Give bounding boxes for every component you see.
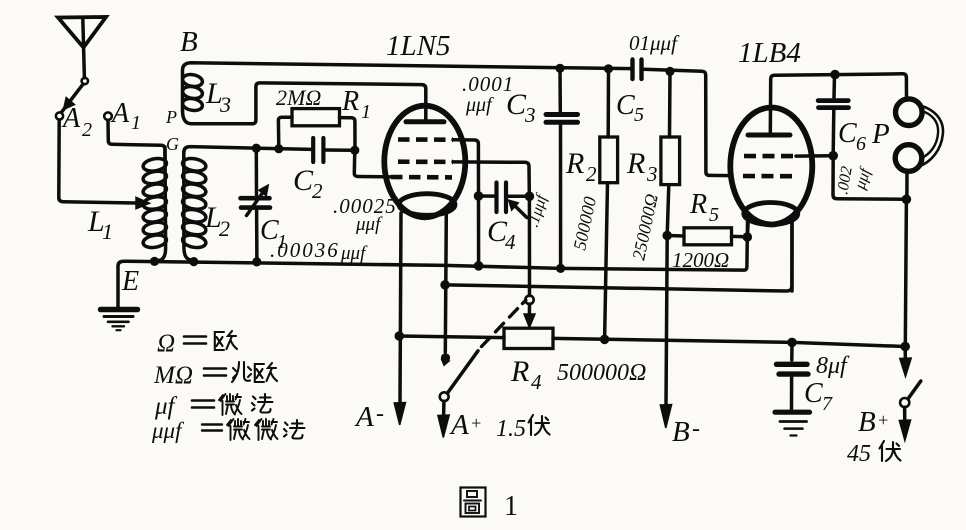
node R3-R5 [662, 231, 672, 241]
B- lead [666, 236, 667, 405]
B+ lead down [905, 199, 906, 346]
1LB4 filament dome [744, 203, 798, 225]
node C1-grid bus [252, 144, 261, 153]
svg-text:C: C [804, 378, 823, 409]
svg-text:Ω: Ω [157, 330, 175, 357]
1LB4 filament left leg [746, 220, 750, 237]
svg-text:1LB4: 1LB4 [738, 37, 801, 69]
node C4 left [474, 191, 484, 201]
B- arrowhead [660, 405, 671, 429]
ground bus wire E [118, 222, 748, 308]
1LN5 plate bar [406, 119, 444, 124]
svg-text:7: 7 [822, 393, 833, 415]
antenna switch upper contact [82, 78, 88, 84]
svg-text:45: 45 [847, 441, 871, 467]
node C6 bottom / plate row [828, 151, 838, 161]
svg-text:P: P [165, 107, 177, 127]
svg-text:4: 4 [531, 370, 542, 394]
capacitor C2 [311, 138, 315, 162]
svg-text:3: 3 [219, 92, 231, 117]
1LN5 filament dome [399, 194, 455, 216]
svg-text:-: - [376, 401, 384, 427]
svg-text:2: 2 [586, 162, 597, 186]
svg-text:8μf: 8μf [816, 353, 850, 379]
capacitor C7 8uf [790, 342, 794, 360]
L1 tap arrowhead [136, 197, 150, 208]
resistor R1 leads [278, 117, 292, 148]
terminal A2 [56, 112, 63, 119]
power switch arm (ganged with R4) [440, 392, 449, 401]
coil L3 [183, 63, 633, 111]
svg-text:5: 5 [709, 204, 719, 226]
svg-text:C: C [616, 90, 635, 121]
C4 trimmer arrow [514, 205, 527, 218]
node R1/C2 right [350, 146, 359, 155]
B+ rail wire3 [399, 336, 905, 347]
node C1-ground bus [252, 257, 261, 266]
svg-text:1: 1 [131, 112, 141, 134]
svg-text:1200Ω: 1200Ω [672, 248, 729, 272]
capacitor C1 (variable) [255, 150, 259, 196]
ground below C7 [775, 410, 810, 415]
node R2 bottom [600, 335, 610, 345]
svg-text:-: - [692, 416, 700, 442]
svg-text:A: A [110, 98, 130, 129]
node C3 bottom [556, 264, 565, 273]
svg-text:01μμf: 01μμf [629, 31, 680, 55]
svg-text:R: R [565, 147, 584, 180]
svg-text:500000: 500000 [569, 195, 600, 252]
wire L3 to 1LN5 plate cap [253, 83, 426, 124]
node R2 top [604, 64, 613, 73]
svg-text:.00036: .00036 [270, 238, 340, 262]
capacitor C6 [832, 75, 836, 98]
1LB4 grid row mid [744, 154, 796, 159]
svg-text:+: + [877, 410, 889, 430]
figure caption [461, 488, 486, 517]
coil L1 [155, 147, 166, 261]
capacitor C3 line [558, 68, 562, 111]
svg-text:2: 2 [82, 119, 92, 141]
capacitor C4 [494, 183, 498, 213]
terminal A1 [104, 112, 112, 120]
svg-text:A: A [449, 409, 469, 441]
capacitor C4 leads [479, 194, 530, 198]
headphone P bottom earpiece [895, 145, 922, 172]
svg-text:3: 3 [524, 103, 536, 127]
1LN5 grid row 3 [391, 175, 452, 180]
wire A1 to L1 top [108, 120, 165, 159]
capacitor C5 (series in bus) [630, 60, 634, 80]
svg-text:A: A [61, 103, 81, 134]
svg-text:MΩ: MΩ [153, 362, 193, 389]
resistor R5 1200ohm [684, 228, 732, 245]
1LB4 plate bar [748, 133, 790, 138]
wire C4-left to ground bus [477, 196, 481, 266]
svg-text:B: B [672, 416, 690, 448]
svg-text:250000Ω: 250000Ω [628, 192, 661, 262]
node C4 right [525, 192, 535, 202]
wire phones bottom [833, 156, 906, 200]
svg-text:C: C [506, 88, 527, 121]
wire C4-right down to R4 wiper [528, 196, 532, 295]
svg-text:2: 2 [312, 179, 323, 203]
resistor R3 leads [668, 71, 672, 137]
node phones-bottom / B+ branch [902, 195, 912, 205]
svg-text:R: R [510, 355, 529, 388]
svg-text:2MΩ: 2MΩ [276, 85, 321, 110]
headphone P top earpiece [896, 99, 923, 126]
1LB4 filament right leg [790, 221, 794, 292]
node R3 top [665, 67, 674, 76]
node R1/C2 left [274, 144, 283, 153]
1LB4 grid row low [743, 174, 796, 179]
svg-text:1LN5: 1LN5 [386, 30, 450, 62]
svg-text:1: 1 [102, 219, 113, 244]
svg-text:μμf: μμf [340, 243, 368, 264]
node R5 right [743, 232, 753, 242]
node wire3 A- [395, 331, 405, 341]
resistor R2 500000 [600, 137, 618, 183]
svg-text:4: 4 [505, 230, 516, 254]
svg-text:G: G [166, 134, 179, 154]
svg-text:B: B [858, 406, 876, 438]
filament bus wire2 [445, 222, 792, 291]
A+ lead from switch [442, 401, 446, 418]
wire to phones top [835, 74, 907, 100]
wire A2 to L1 tap [59, 120, 137, 203]
svg-text:C: C [838, 118, 857, 149]
svg-text:500000Ω: 500000Ω [557, 360, 646, 386]
node plate cap / C6 top [830, 70, 840, 80]
R4 wiper contact [525, 296, 533, 304]
antenna [58, 17, 106, 48]
1LB4 top cap wire [770, 75, 835, 135]
svg-text:1.5: 1.5 [496, 416, 526, 442]
svg-text:1: 1 [361, 101, 371, 123]
resistor R1 2Mohm [292, 109, 340, 126]
svg-text:μμf: μμf [465, 94, 494, 116]
tube 1LB4 envelope [730, 108, 812, 225]
B+ switch blade [908, 381, 921, 399]
node B+ rail [900, 342, 910, 352]
ground symbol E [101, 307, 138, 313]
svg-text:μμf: μμf [355, 214, 383, 235]
svg-text:3: 3 [646, 162, 658, 186]
resistor R2 leads [606, 69, 610, 137]
1LN5 filament left leg / A- lead [400, 213, 401, 402]
svg-text:E: E [121, 266, 139, 297]
svg-text:μf: μf [154, 393, 178, 420]
antenna switch arm [62, 84, 84, 112]
B+ terminal lead [903, 407, 907, 423]
node L1-bus [150, 257, 159, 266]
1LN5 grid row 2 [398, 159, 453, 164]
top bus right of C5 [644, 69, 732, 175]
node filament wire2 [440, 280, 450, 290]
svg-text:5: 5 [634, 104, 644, 126]
svg-text:P: P [871, 118, 890, 150]
node C4-left ground [474, 261, 484, 271]
headphone band [919, 105, 943, 167]
B+ switch upper contact [903, 349, 907, 360]
svg-text:B: B [180, 26, 198, 58]
potentiometer R4 [504, 328, 553, 348]
node C3 top [555, 64, 564, 73]
svg-text:μμf: μμf [151, 418, 185, 443]
1LN5 grid row 1 [398, 137, 453, 142]
coil L2 [184, 147, 312, 153]
node C7 top [787, 338, 797, 348]
node L2-bus [189, 257, 198, 266]
svg-text:A: A [354, 401, 374, 433]
svg-text:R: R [626, 147, 645, 180]
svg-text:1: 1 [504, 491, 518, 522]
svg-text:R: R [341, 86, 359, 117]
resistor R3 250000 [661, 137, 680, 185]
resistor R5 leads [667, 236, 746, 237]
svg-text:R: R [689, 189, 707, 220]
svg-text:6: 6 [856, 133, 866, 155]
svg-text:+: + [470, 413, 482, 433]
wire grid to tube [354, 150, 391, 177]
1LN5 filament right leg / A+ lead [445, 214, 446, 352]
svg-text:2: 2 [219, 216, 230, 241]
svg-text:C: C [293, 164, 314, 197]
switch contact blob [441, 353, 450, 362]
tube 1LN5 envelope [384, 106, 465, 218]
A- arrowhead [394, 403, 405, 426]
